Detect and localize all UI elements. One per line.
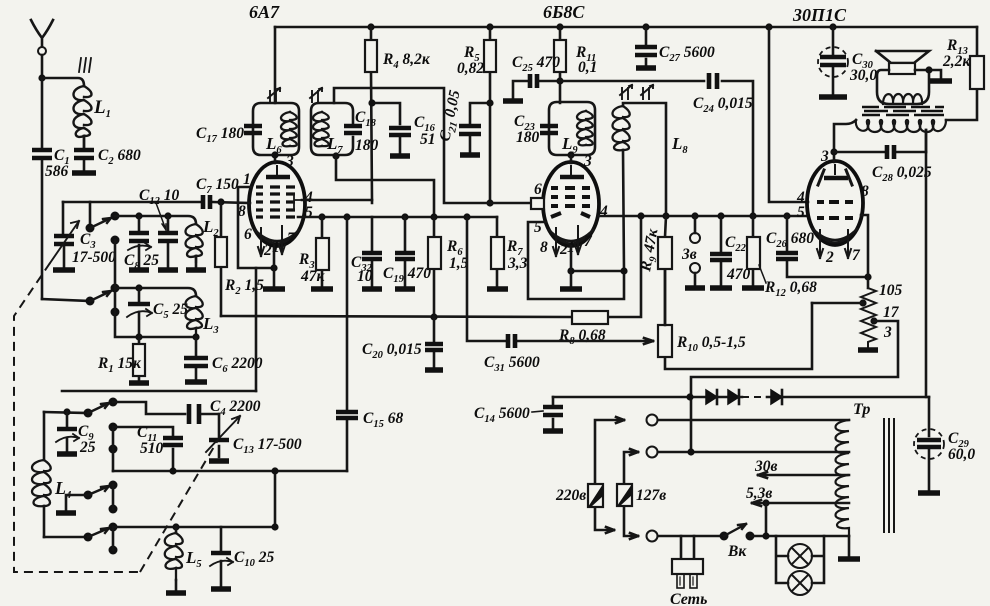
- capacitor C10 trimmer: [210, 527, 274, 586]
- node rectifier junction: [686, 393, 693, 400]
- capacitor C31: [467, 217, 653, 374]
- ground: [858, 347, 878, 352]
- svg-text:2: 2: [825, 249, 834, 266]
- svg-text:C26 680: C26 680: [766, 230, 814, 250]
- svg-text:25: 25: [79, 439, 96, 456]
- capacitor C11: [113, 424, 183, 471]
- wire left rail corner: [62, 202, 65, 233]
- svg-text:3: 3: [285, 153, 294, 170]
- capacitor C24: [693, 73, 753, 115]
- svg-text:R8 0,68: R8 0,68: [558, 327, 606, 347]
- capacitor C22: [710, 216, 751, 285]
- wire antenna to SW2: [42, 299, 90, 301]
- switch SW1: [86, 202, 120, 245]
- ground: [211, 586, 231, 591]
- wire C16 feed: [373, 103, 400, 124]
- capacitor C8 trimmer: [124, 216, 159, 272]
- resistor R7: [491, 217, 528, 286]
- node C20: [430, 313, 437, 320]
- IF transformer box L6: [253, 103, 299, 156]
- svg-text:105: 105: [879, 282, 903, 299]
- svg-text:0,82: 0,82: [457, 60, 484, 77]
- capacitor C32: [351, 217, 382, 286]
- svg-text:L1: L1: [93, 97, 111, 120]
- wire L8 top to AVC: [623, 103, 666, 216]
- ground: [918, 490, 940, 495]
- lamps: [776, 536, 824, 595]
- wire ground bus: [62, 390, 256, 393]
- wire mains rail 127: [624, 447, 849, 542]
- svg-text:C7 150: C7 150: [196, 176, 239, 196]
- capacitor C14: [474, 397, 563, 428]
- ground: [838, 556, 860, 561]
- diode D3: [771, 390, 782, 404]
- svg-text:R10 0,5-1,5: R10 0,5-1,5: [676, 334, 746, 354]
- svg-text:8: 8: [540, 239, 548, 256]
- capacitor C28: [834, 145, 932, 184]
- svg-text:47к: 47к: [300, 268, 326, 285]
- tube 30П1С: [807, 161, 863, 245]
- svg-text:7: 7: [852, 247, 861, 264]
- ground: [53, 267, 75, 272]
- capacitor C23: [514, 113, 558, 146]
- pin label 2 arrow: [258, 228, 272, 259]
- svg-text:C31 5600: C31 5600: [484, 354, 540, 374]
- tube 6А7: [249, 162, 305, 246]
- svg-text:180: 180: [355, 137, 379, 154]
- wire tap 5.3в: [746, 485, 849, 506]
- svg-text:51: 51: [420, 131, 436, 148]
- wire rectifier line: [553, 396, 929, 399]
- node C11 on det line: [169, 467, 176, 474]
- capacitor C1: [32, 78, 70, 299]
- wire speaker ground: [915, 70, 941, 78]
- node det riser: [271, 467, 278, 474]
- svg-text:180: 180: [516, 129, 540, 146]
- svg-text:30П1С: 30П1С: [792, 5, 847, 25]
- ground: [460, 152, 480, 157]
- ground: [158, 267, 178, 272]
- dashed gang diagonal: [140, 440, 218, 572]
- ground: [560, 286, 582, 291]
- svg-text:5,3в: 5,3в: [746, 485, 772, 502]
- svg-text:L4: L4: [54, 478, 71, 501]
- node L9 bottom: [567, 151, 574, 158]
- ground: [425, 367, 443, 372]
- wire pin3 30П1С: [834, 120, 856, 162]
- ground: [543, 428, 563, 433]
- wire pin5 rail 6А7: [298, 216, 497, 219]
- resistor R3: [298, 217, 329, 286]
- ground: [185, 379, 207, 384]
- wire band2 rail: [115, 288, 196, 296]
- wire pin4 rail 6Б8С: [599, 215, 808, 218]
- capacitor C2: [74, 136, 141, 170]
- pin label 7 arrow: [567, 226, 593, 256]
- wire AVC long line: [221, 216, 641, 317]
- wire C25 to C24 line: [560, 81, 753, 216]
- node pin5 rail junctions: [318, 213, 470, 220]
- node L5 top: [172, 523, 179, 530]
- svg-text:0,1: 0,1: [578, 59, 597, 76]
- switch SW3: [84, 398, 118, 454]
- wire: [42, 78, 84, 86]
- wire B+ riser: [925, 130, 928, 397]
- svg-text:Сеть: Сеть: [670, 591, 707, 606]
- dashed gang line C3: [14, 263, 140, 572]
- svg-text:5: 5: [305, 204, 313, 221]
- svg-text:510: 510: [140, 440, 164, 457]
- node antenna junction: [38, 74, 45, 81]
- capacitor C27: [635, 27, 715, 65]
- capacitor C19: [383, 217, 431, 286]
- node L6 bottom: [271, 151, 278, 158]
- resistor R8: [558, 311, 608, 347]
- node R1 top: [135, 333, 142, 340]
- svg-text:220в: 220в: [555, 487, 586, 504]
- ground: [685, 285, 705, 290]
- svg-text:C17 180: C17 180: [196, 125, 244, 145]
- ground: [72, 170, 96, 175]
- capacitor C17: [196, 125, 262, 145]
- svg-text:C13 17-500: C13 17-500: [233, 436, 302, 456]
- capacitor C7: [63, 176, 250, 209]
- capacitor C4: [189, 398, 261, 424]
- wire cathode 30П1С: [861, 215, 868, 288]
- svg-text:6: 6: [534, 181, 542, 198]
- wire L8 bottom to cathode: [571, 150, 624, 271]
- ground: [129, 380, 149, 385]
- svg-text:5: 5: [797, 204, 805, 221]
- resistor R11: [554, 27, 597, 103]
- tuning core mark L7: [310, 88, 322, 102]
- ground: [503, 98, 523, 103]
- transformer core lines: [884, 419, 894, 532]
- ground: [487, 286, 508, 291]
- svg-text:1: 1: [243, 171, 251, 188]
- svg-text:3,3: 3,3: [507, 255, 528, 272]
- svg-text:8: 8: [861, 183, 869, 200]
- node grid junction: [217, 198, 224, 205]
- wire L4 top rail: [44, 412, 88, 413]
- tuning core mark L6: [268, 88, 280, 102]
- ground: [710, 285, 732, 290]
- ground: [362, 286, 382, 291]
- capacitor C18: [344, 109, 379, 154]
- svg-text:17: 17: [883, 304, 900, 321]
- svg-text:4: 4: [599, 203, 608, 220]
- switch Вк: [720, 524, 755, 560]
- terminals 3в: [681, 216, 700, 285]
- ground: [819, 94, 847, 99]
- antenna: [31, 20, 53, 78]
- svg-text:C28 0,025: C28 0,025: [872, 164, 932, 184]
- svg-text:C5 25: C5 25: [153, 301, 188, 321]
- ground: [263, 286, 285, 291]
- wire primary tap: [925, 130, 928, 152]
- svg-text:586: 586: [45, 163, 69, 180]
- resistor R6: [428, 217, 469, 317]
- svg-text:3в: 3в: [681, 246, 697, 263]
- svg-text:R4 8,2к: R4 8,2к: [382, 51, 431, 71]
- diode D1: [706, 390, 717, 404]
- capacitor C29: [914, 397, 975, 490]
- svg-text:127в: 127в: [636, 487, 666, 504]
- ground: [395, 286, 415, 291]
- switch SW2: [86, 240, 120, 317]
- svg-text:3: 3: [583, 153, 592, 170]
- wire tap 105: [812, 302, 863, 305]
- node cathode 6А7: [270, 264, 277, 271]
- wire pin1 loop: [238, 187, 274, 268]
- inductor L4: [32, 412, 71, 537]
- svg-text:17-500: 17-500: [72, 249, 116, 266]
- resistor bias zigzag: [859, 282, 902, 347]
- node C5 top: [135, 284, 142, 291]
- svg-text:7: 7: [287, 230, 296, 247]
- wire transformer ground: [848, 536, 851, 556]
- node heater tap: [762, 499, 769, 506]
- capacitor C15: [336, 218, 403, 471]
- wire SW3 to C4: [113, 402, 185, 414]
- pin label 2 arrow: [553, 228, 568, 258]
- wire band1 rail: [115, 216, 196, 224]
- svg-text:1,5: 1,5: [449, 255, 469, 272]
- wire pin3 6А7: [274, 155, 277, 163]
- svg-text:3: 3: [820, 148, 829, 165]
- wire L7 top to 6Б8С grid: [334, 88, 533, 203]
- switch SW4: [84, 481, 118, 514]
- wire L6 top riser: [274, 27, 277, 103]
- capacitor C21: [436, 88, 493, 152]
- node bus junctions: [367, 23, 836, 30]
- svg-text:10: 10: [357, 268, 373, 285]
- wire cathode 6Б8С: [570, 246, 573, 286]
- svg-text:C20 0,015: C20 0,015: [362, 341, 422, 361]
- IF transformer box L7: [311, 103, 353, 156]
- svg-text:C12 10: C12 10: [139, 187, 179, 207]
- wire pin4 6А7: [302, 200, 372, 203]
- resistor R10: [658, 269, 812, 369]
- ground: [129, 267, 149, 272]
- svg-text:R12 0,68: R12 0,68: [764, 279, 817, 299]
- svg-text:60,0: 60,0: [948, 446, 975, 463]
- svg-text:Тр: Тр: [853, 401, 870, 418]
- resistor R1: [97, 337, 145, 380]
- ground: [742, 285, 764, 290]
- pin label 7 arrow: [845, 230, 861, 264]
- node cathode feedback: [864, 273, 871, 280]
- ground: [311, 286, 333, 291]
- svg-text:3: 3: [883, 324, 892, 341]
- svg-text:C27 5600: C27 5600: [659, 44, 715, 64]
- wire diode plate loop: [528, 222, 624, 299]
- IF transformer box L9: [549, 102, 595, 156]
- wire contact column A: [112, 427, 115, 471]
- svg-text:R2 1,5: R2 1,5: [224, 277, 264, 297]
- node C9: [63, 408, 70, 415]
- wire to transformer bottom: [750, 535, 849, 538]
- wire mains rail 220: [595, 415, 849, 534]
- capacitor C26: [766, 216, 868, 277]
- inductor L2: [186, 217, 220, 267]
- mains plug: [670, 536, 707, 606]
- fuse 127в: [617, 484, 666, 506]
- svg-text:Вк: Вк: [727, 543, 747, 560]
- svg-text:C10 25: C10 25: [234, 549, 274, 569]
- resistor R12: [747, 216, 817, 299]
- capacitor C12: [139, 187, 179, 267]
- resistor R13: [942, 27, 984, 120]
- wire detector riser: [274, 471, 277, 527]
- node L7 bottom: [332, 152, 339, 159]
- capacitor C6: [184, 337, 263, 379]
- svg-text:L8: L8: [671, 134, 688, 156]
- ground: [56, 510, 76, 515]
- capacitor C30: [818, 27, 877, 94]
- svg-text:C19 470: C19 470: [383, 265, 431, 285]
- tuning core mark L9: [620, 85, 632, 99]
- wire tap 3: [691, 321, 898, 452]
- svg-text:6Б8С: 6Б8С: [543, 2, 585, 22]
- inductor L1: [74, 86, 111, 147]
- svg-text:C14 5600: C14 5600: [474, 405, 530, 425]
- svg-text:6А7: 6А7: [249, 2, 280, 22]
- resistor R2: [215, 202, 264, 316]
- node cathode 6Б8С: [567, 267, 574, 274]
- svg-text:30,0: 30,0: [849, 67, 877, 84]
- svg-text:30в: 30в: [754, 458, 778, 475]
- wire L5 rail: [113, 526, 275, 529]
- node 127 rail: [687, 448, 694, 455]
- transformer Тр winding: [836, 401, 871, 536]
- svg-text:L2: L2: [202, 217, 219, 239]
- wire AVC row: [115, 312, 196, 337]
- resistor R5: [457, 27, 496, 207]
- ground: [57, 451, 77, 456]
- wire screen feed 30П1С: [769, 27, 808, 202]
- tuning core mark L8: [641, 85, 653, 99]
- svg-text:C2 680: C2 680: [98, 147, 141, 167]
- svg-text:7: 7: [584, 233, 593, 250]
- node speaker: [925, 66, 932, 73]
- ground: [390, 153, 410, 158]
- capacitor C3 variable: [50, 221, 116, 267]
- wire L7 bottom to R6 node: [336, 155, 434, 217]
- output transformer primary: [856, 120, 946, 132]
- capacitor C20: [362, 317, 443, 367]
- switch SW5: [84, 523, 118, 555]
- wire SW4 ground stub: [66, 495, 88, 510]
- inductor L5: [165, 527, 202, 590]
- inductor L3: [186, 296, 219, 337]
- tube 6Б8С: [543, 162, 599, 246]
- svg-text:2,2к: 2,2к: [942, 53, 971, 70]
- core mark: [79, 58, 91, 72]
- svg-text:L5: L5: [185, 548, 202, 570]
- wire L4 bottom rail: [44, 536, 88, 539]
- inductor L8: [613, 106, 689, 156]
- ground: [209, 458, 229, 463]
- wire ground return riser: [255, 268, 258, 391]
- capacitor C13 variable: [206, 414, 302, 457]
- wire detector line: [113, 470, 347, 473]
- node pin4 rail junctions: [637, 212, 790, 219]
- svg-text:C22: C22: [725, 234, 747, 254]
- diode D2: [728, 390, 739, 404]
- node R4 lead: [368, 99, 375, 106]
- node anode: [830, 148, 837, 155]
- pin label 2 arrow: [817, 230, 834, 266]
- transformer core: [862, 107, 944, 115]
- capacitor C25: [512, 54, 564, 98]
- ground: [166, 590, 186, 595]
- wire heater to lamps: [765, 503, 768, 536]
- svg-text:6: 6: [244, 226, 252, 243]
- ground: [186, 267, 206, 272]
- capacitor C5 trimmer: [127, 288, 188, 337]
- capacitor C16: [389, 114, 436, 153]
- node lamp branch: [762, 532, 769, 539]
- wire tap 30в: [754, 458, 849, 478]
- wire pin3 6Б8С: [570, 155, 573, 163]
- fuse 220в: [555, 484, 603, 507]
- node C8 C12: [135, 212, 171, 219]
- svg-text:C3: C3: [80, 231, 96, 251]
- speaker: [876, 51, 929, 104]
- svg-text:C24 0,015: C24 0,015: [693, 95, 753, 115]
- svg-text:C15 68: C15 68: [363, 410, 403, 430]
- resistor R4: [365, 27, 431, 200]
- wire dashed rectifier gap: [742, 396, 767, 398]
- ground: [636, 65, 656, 70]
- svg-text:2: 2: [263, 242, 272, 259]
- grid cap pin6: [531, 181, 544, 209]
- capacitor C9 trimmer: [56, 412, 96, 456]
- node L3 bottom: [192, 333, 199, 340]
- pin label 7 arrow: [272, 226, 296, 256]
- ground: [930, 78, 952, 83]
- wire top B+ bus: [275, 26, 977, 29]
- wire cathode 6А7: [273, 246, 276, 286]
- svg-text:L3: L3: [202, 314, 219, 336]
- resistor R9: [637, 216, 672, 325]
